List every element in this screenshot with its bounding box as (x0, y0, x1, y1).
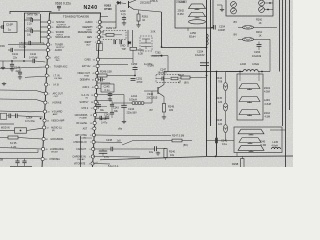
svg-text:1u0: 1u0 (117, 140, 122, 143)
svg-text:1000P: 1000P (218, 29, 226, 32)
svg-text:4.7u: 4.7u (104, 156, 109, 159)
svg-text:16u/16k: 16u/16k (252, 54, 262, 58)
svg-text:R246 158: R246 158 (100, 69, 112, 73)
svg-text:C254: C254 (197, 49, 204, 53)
svg-text:MODULATOR: MODULATOR (55, 36, 70, 39)
svg-text:DELAY: DELAY (51, 151, 59, 154)
svg-text:REFERENCE: REFERENCE (78, 32, 93, 34)
svg-text:15K: 15K (0, 44, 5, 48)
svg-text:Z243: Z243 (264, 86, 270, 90)
svg-text:120: 120 (218, 123, 223, 126)
svg-text:CHROMA: CHROMA (49, 158, 60, 161)
svg-text:0.7u 63u: 0.7u 63u (25, 120, 35, 123)
svg-text:CAPACIT: CAPACIT (76, 148, 86, 151)
svg-text:R248: R248 (168, 105, 175, 108)
svg-text:30u: 30u (100, 109, 105, 112)
svg-text:6.2K: 6.2K (138, 52, 143, 55)
svg-text:TUNER AGC: TUNER AGC (54, 66, 68, 69)
svg-text:(8V): (8V) (183, 143, 188, 147)
svg-text:L244: L244 (131, 94, 137, 98)
svg-text:5.1u( 3..1: 5.1u( 3..1 (108, 165, 119, 167)
svg-text:L249: L249 (264, 98, 270, 102)
svg-text:RF LEVEL: RF LEVEL (76, 123, 88, 125)
svg-text:T0P: T0P (122, 48, 127, 51)
svg-text:1K: 1K (259, 22, 262, 25)
svg-text:Z242: Z242 (264, 111, 270, 115)
svg-text:FILTER: FILTER (54, 78, 62, 80)
svg-text:C250: C250 (131, 62, 138, 66)
svg-text:1K: 1K (142, 19, 145, 22)
svg-text:8V: 8V (234, 20, 238, 24)
svg-text:TBC: TBC (55, 60, 60, 62)
svg-text:R262 1K: R262 1K (106, 26, 117, 30)
svg-text:2.2u: 2.2u (27, 23, 32, 26)
svg-text:1u/16V: 1u/16V (144, 62, 152, 66)
svg-text:XT9D: XT9D (104, 7, 113, 11)
svg-text:uNo: uNo (118, 128, 123, 130)
svg-text:58: 58 (0, 158, 4, 162)
svg-text:C264: C264 (254, 50, 261, 54)
svg-text:1u: 1u (8, 27, 12, 31)
svg-text:R244: R244 (216, 77, 223, 80)
svg-text:C245: C245 (104, 85, 111, 88)
svg-text:C186: C186 (27, 28, 33, 31)
svg-text:4.8uH: 4.8uH (272, 144, 279, 147)
svg-text:CVBS: CVBS (84, 60, 91, 62)
svg-text:MOD IN: MOD IN (1, 126, 10, 129)
svg-text:OUT: OUT (86, 45, 91, 47)
svg-text:10u: 10u (149, 151, 154, 154)
svg-text:(8V): (8V) (184, 81, 189, 84)
svg-text:R240: R240 (138, 49, 145, 52)
svg-text:AUDIO: AUDIO (85, 21, 93, 24)
svg-text:708: 708 (218, 81, 223, 84)
svg-text:DEEMPH: DEEMPH (80, 80, 90, 82)
svg-text:VITORATE: VITORATE (74, 163, 86, 166)
svg-text:22n: 22n (13, 57, 18, 60)
svg-text:16u/16V: 16u/16V (195, 53, 205, 57)
svg-text:8V: 8V (234, 32, 238, 36)
svg-text:SUPPLY: SUPPLY (79, 102, 88, 104)
svg-text:R298: R298 (232, 162, 239, 166)
svg-text:120: 120 (218, 101, 223, 104)
svg-text:AMP: AMP (53, 113, 58, 116)
svg-text:4.5M: 4.5M (265, 116, 271, 119)
svg-text:C242: C242 (104, 113, 110, 116)
svg-text:18u/63n: 18u/63n (158, 72, 168, 75)
svg-text:(R): (R) (52, 130, 55, 132)
svg-text:4.5M: 4.5M (264, 89, 270, 93)
svg-text:R247 3.3M: R247 3.3M (172, 134, 184, 137)
svg-text:PLANE: PLANE (80, 117, 88, 120)
svg-text:4700: 4700 (137, 80, 143, 84)
svg-text:AST: AST (83, 128, 88, 131)
svg-text:CH6-S: CH6-S (150, 0, 158, 3)
svg-text:UHF 2: UHF 2 (81, 108, 88, 110)
svg-text:C251: C251 (136, 76, 143, 80)
svg-text:CHROMA IN: CHROMA IN (73, 141, 87, 144)
svg-text:3.0K: 3.0K (151, 31, 156, 34)
svg-text:I.A. B: I.A. B (53, 84, 59, 87)
svg-text:4.7u: 4.7u (121, 13, 126, 16)
svg-text:AUDIO: AUDIO (55, 49, 63, 52)
svg-text:EXT AU: EXT AU (82, 65, 91, 68)
svg-text:RGB: RGB (84, 76, 89, 78)
svg-text:C16P: C16P (6, 23, 13, 27)
svg-text:0.8uH: 0.8uH (265, 103, 272, 106)
svg-text:61 35: 61 35 (10, 141, 17, 145)
svg-text:AUD 1: AUD 1 (82, 86, 90, 89)
svg-text:8V: 8V (150, 108, 153, 112)
svg-text:GEN: GEN (87, 37, 92, 39)
svg-text:0.47u: 0.47u (101, 122, 108, 125)
svg-text:VIDEO-AMP: VIDEO-AMP (51, 120, 65, 123)
svg-text:V-DRIVE: V-DRIVE (52, 103, 62, 105)
svg-text:3.5M: 3.5M (179, 0, 186, 4)
svg-text:0636 0.22u: 0636 0.22u (55, 2, 71, 6)
svg-text:R245: R245 (216, 97, 223, 100)
svg-text:25N2: 25N2 (178, 8, 185, 12)
svg-text:SUPPLY: SUPPLY (56, 47, 65, 49)
svg-text:10u: 10u (27, 33, 32, 36)
svg-text:R248: R248 (216, 119, 223, 122)
svg-text:OUT: OUT (54, 96, 59, 98)
svg-text:C142: C142 (30, 53, 37, 56)
svg-text:DELAY: DELAY (78, 158, 86, 161)
svg-text:R240: R240 (169, 150, 176, 153)
svg-text:4.8uH: 4.8uH (252, 62, 259, 66)
svg-text:1K: 1K (259, 34, 262, 37)
svg-text:N240: N240 (84, 5, 98, 11)
svg-text:C185: C185 (27, 17, 33, 20)
svg-text:L250: L250 (190, 31, 196, 35)
svg-text:C144: C144 (14, 66, 21, 70)
svg-text:0.1u: 0.1u (105, 89, 110, 92)
svg-text:L246: L246 (240, 62, 246, 66)
svg-text:180: 180 (169, 109, 174, 112)
svg-text:GROUNDPL: GROUNDPL (50, 139, 64, 141)
svg-text:DEMODULAT: DEMODULAT (56, 26, 71, 29)
svg-text:0.22u: 0.22u (19, 44, 26, 48)
svg-text:C238: C238 (106, 139, 113, 142)
svg-text:C244: C244 (128, 107, 135, 111)
svg-text:6.0M: 6.0M (178, 12, 185, 16)
svg-text:100uH: 100uH (129, 98, 137, 102)
svg-text:0.1u: 0.1u (222, 142, 228, 146)
svg-text:C304: C304 (26, 116, 33, 120)
svg-text:TDA8362/TDA8395: TDA8362/TDA8395 (63, 14, 90, 18)
svg-text:C141: C141 (12, 53, 19, 56)
svg-text:220u/16V: 220u/16V (127, 112, 138, 115)
svg-text:5.3M: 5.3M (261, 144, 267, 147)
svg-text:82uH: 82uH (189, 35, 195, 39)
svg-text:V246: V246 (147, 92, 154, 96)
